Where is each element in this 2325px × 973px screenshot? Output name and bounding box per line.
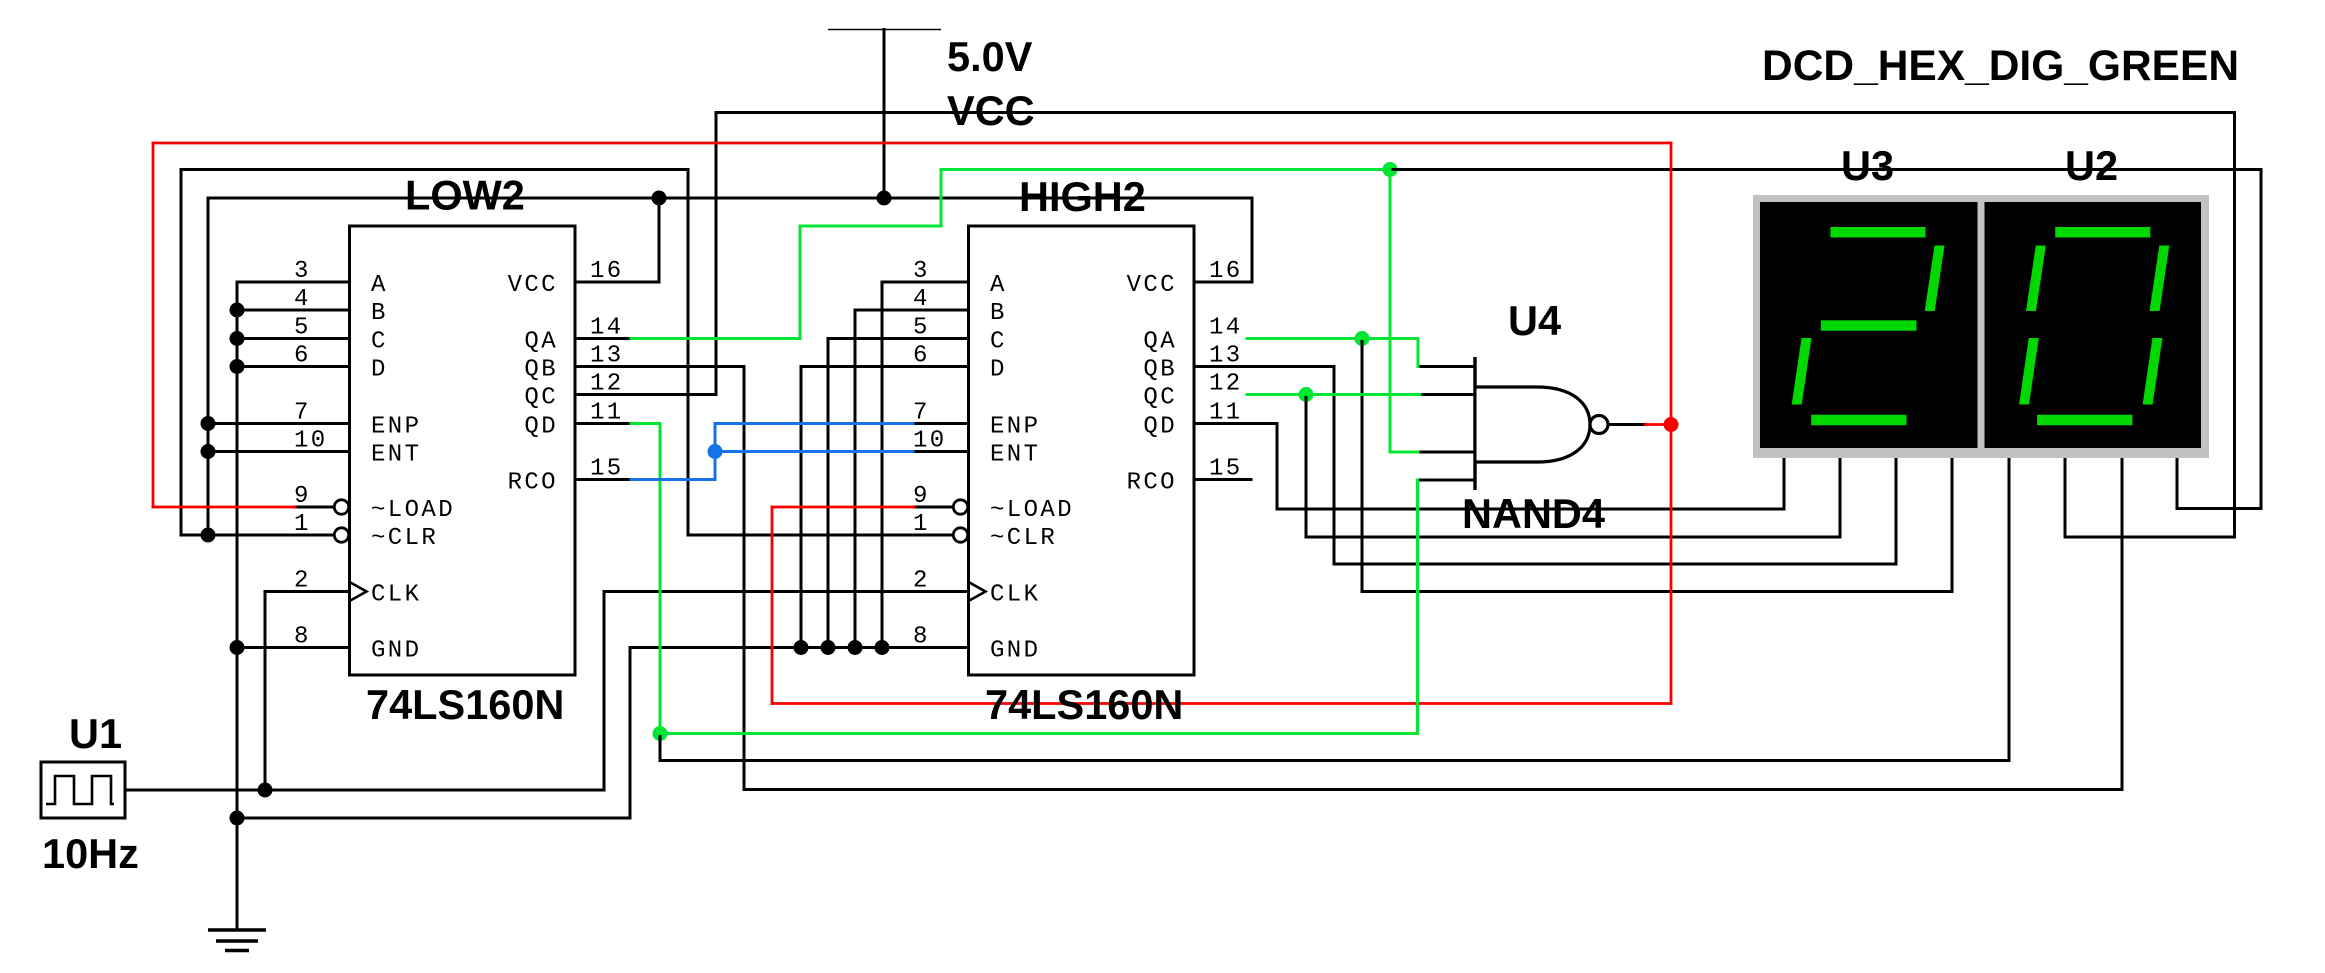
wire NAND output stub: [1610, 423, 1645, 426]
wire QB-low2 riser: [743, 367, 746, 790]
svg-text:QA: QA: [524, 329, 558, 356]
wire green QA into NAND input 3: [1390, 451, 1418, 454]
wire blue LOW2 RCO lead: [631, 478, 715, 481]
wire green QA jog: [800, 225, 941, 228]
wire green HIGH2 QC into NAND input 2: [1247, 393, 1420, 396]
wire HIGH2 GND rail pin 8: [630, 646, 969, 649]
svg-text:~CLR: ~CLR: [371, 525, 438, 552]
svg-text:GND: GND: [371, 638, 421, 665]
svg-text:U3: U3: [1841, 142, 1894, 189]
svg-text:A: A: [990, 272, 1007, 299]
U3 segment B: [1925, 246, 1945, 312]
junction VCC symbol: [877, 191, 892, 206]
wire green LOW2 QD lead: [631, 422, 660, 425]
junction VCC/pin16-LOW2: [652, 191, 667, 206]
wire HIGH2 pin 3 A: [882, 281, 969, 284]
svg-text:2: 2: [294, 568, 311, 595]
svg-text:RCO: RCO: [1127, 470, 1177, 497]
junction gnd/GND-LOW2: [230, 640, 245, 655]
wire HIGH2 pin 4 B: [855, 309, 969, 312]
svg-text:LOW2: LOW2: [405, 172, 525, 219]
svg-text:~LOAD: ~LOAD: [371, 497, 455, 524]
wire HIGH2 pin 2 CLK: [604, 590, 969, 593]
wire LOW2 pin 6 D: [237, 365, 350, 368]
wire green QD up to NAND input 4: [1416, 480, 1419, 734]
wire U3 display pin d: [1951, 458, 1954, 592]
wire QD-high2 riser: [1276, 424, 1279, 510]
junction HIGH2 D/GND: [794, 640, 809, 655]
wire green QA top segment: [941, 168, 1390, 171]
wire HIGH2 pin 15 RCO stub: [1194, 478, 1251, 481]
wire VCC symbol riser: [883, 30, 886, 199]
wire VCC branch riser: [207, 198, 210, 535]
wire LOW2 ~CLR pin lead: [181, 534, 333, 537]
wire U3 display pin b: [1839, 458, 1842, 537]
svg-text:U1: U1: [69, 710, 122, 757]
svg-text:B: B: [371, 300, 388, 327]
junction HIGH2 B/GND: [848, 640, 863, 655]
svg-text:~CLR: ~CLR: [990, 525, 1057, 552]
wire red right riser: [1670, 143, 1673, 704]
svg-text:QC: QC: [1143, 385, 1177, 412]
svg-text:D: D: [371, 357, 388, 384]
svg-text:DCD_HEX_DIG_GREEN: DCD_HEX_DIG_GREEN: [1762, 43, 2239, 90]
wire QC-low2 riser: [715, 113, 718, 395]
junction green QD-low2: [653, 726, 668, 741]
wire ground lower rail: [237, 817, 630, 820]
wire U1 output rail: [125, 789, 604, 792]
svg-text:VCC: VCC: [1127, 272, 1177, 299]
wire HIGH2 pin 5 C: [828, 337, 969, 340]
wire net QC-low2 top rail: [716, 111, 2235, 114]
ground symbol: [208, 930, 266, 951]
U3 segment A: [1830, 227, 1925, 238]
wire CLK riser HIGH2: [603, 592, 606, 791]
wire U2 display pin c: [2121, 458, 2124, 790]
wire QD-high2 to U3 pin a: [1277, 508, 1784, 511]
wire red NAND-out top rail: [153, 142, 1671, 145]
svg-text:5: 5: [294, 315, 311, 342]
svg-text:6: 6: [294, 343, 311, 370]
seven segment display U3 bezel: [1753, 195, 1981, 458]
svg-text:16: 16: [590, 258, 624, 285]
wire HIGH2 pin 11 QD lead: [1194, 422, 1277, 425]
junction VCC/ENP: [201, 416, 216, 431]
wire net ~CLR upper segment: [181, 168, 688, 171]
wire LOW2 pin 5 C: [237, 337, 350, 340]
wire HIGH2 pin 6 D: [801, 365, 969, 368]
svg-text:13: 13: [590, 343, 624, 370]
wire LOW2 pin 4 B: [237, 309, 350, 312]
U3 segment G: [1821, 320, 1917, 330]
U6 HIGH2 CLK edge triangle: [969, 582, 986, 601]
svg-text:13: 13: [1209, 343, 1243, 370]
svg-text:6: 6: [913, 343, 930, 370]
svg-text:12: 12: [590, 371, 624, 398]
junction gnd/D: [230, 359, 245, 374]
wire QA-low2 right riser: [2260, 170, 2263, 509]
wire U3 display pin c: [1895, 458, 1898, 564]
junction clock branch: [258, 783, 273, 798]
svg-text:4: 4: [294, 286, 311, 313]
wire blue to HIGH2 ENP: [715, 422, 913, 425]
wire blue riser: [714, 424, 717, 480]
wire CLK riser LOW2: [264, 592, 267, 791]
svg-text:5.0V: 5.0V: [947, 33, 1033, 80]
svg-text:RCO: RCO: [508, 470, 558, 497]
wire LOW2 pin 3 A: [237, 281, 350, 284]
U2 segment E: [2019, 338, 2039, 405]
wire ~CLR mid riser: [687, 170, 690, 536]
U2 segment B: [2150, 246, 2170, 312]
wire HIGH2 D drop: [800, 367, 803, 648]
svg-text:ENP: ENP: [371, 414, 421, 441]
svg-text:QA: QA: [1143, 329, 1177, 356]
svg-text:ENT: ENT: [371, 442, 421, 469]
wire HIGH2 VCC16 riser: [1251, 198, 1254, 282]
svg-text:2: 2: [913, 568, 930, 595]
svg-text:5: 5: [913, 315, 930, 342]
wire QD-low2 drop from junction: [659, 734, 662, 761]
svg-text:7: 7: [294, 400, 311, 427]
svg-text:QD: QD: [524, 414, 558, 441]
svg-text:NAND4: NAND4: [1462, 490, 1605, 537]
wire QC-low2 right riser: [2233, 113, 2236, 538]
svg-text:12: 12: [1209, 371, 1243, 398]
U5 LOW2 ~CLR bubble: [334, 528, 348, 542]
wire QA-low2 to U2 pin d: [2177, 507, 2261, 510]
wire NAND input 1 stub: [1418, 365, 1475, 368]
svg-text:HIGH2: HIGH2: [1019, 173, 1146, 220]
U2 segment F: [2026, 246, 2046, 312]
svg-text:QB: QB: [524, 357, 558, 384]
junction red NAND output: [1664, 417, 1679, 432]
wire U2 display pin d: [2176, 458, 2179, 509]
svg-text:11: 11: [1209, 400, 1243, 427]
svg-text:QB: QB: [1143, 357, 1177, 384]
wire U2 display pin b: [2064, 458, 2067, 537]
wire HIGH2 B drop: [854, 310, 857, 648]
wire red NAND output: [1645, 423, 1671, 426]
wire green QA riser 2: [940, 170, 943, 227]
wire NAND input 4 stub: [1418, 479, 1476, 482]
wire QA-high2 riser: [1361, 339, 1364, 592]
svg-text:D: D: [990, 357, 1007, 384]
seven segment display U2 bezel: [1981, 195, 2209, 458]
wire QC-low2 to U2 pin b: [2065, 536, 2235, 539]
svg-text:CLK: CLK: [990, 582, 1040, 609]
wire ground main riser: [236, 282, 239, 930]
U3 segment D: [1811, 415, 1906, 425]
wire ~CLR left riser: [180, 170, 183, 536]
svg-text:U4: U4: [1508, 297, 1561, 344]
U6 HIGH2 ~CLR bubble: [953, 528, 967, 542]
svg-text:VCC: VCC: [947, 87, 1035, 134]
svg-text:74LS160N: 74LS160N: [366, 681, 564, 728]
wire LOW2 pin 13 QB lead: [575, 365, 744, 368]
svg-text:3: 3: [913, 258, 930, 285]
wire HIGH2 pin 9 ~LOAD stub: [914, 506, 952, 509]
svg-text:QC: QC: [524, 385, 558, 412]
wire HIGH2 pin 7 ENP stub: [913, 422, 969, 425]
U3 segment E: [1792, 338, 1812, 405]
svg-text:GND: GND: [990, 638, 1040, 665]
wire LOW2 pin 16 VCC lead: [575, 281, 659, 284]
wire QB-low2 bottom rail: [744, 788, 2122, 791]
wire red to LOW2 ~LOAD: [153, 506, 295, 509]
svg-text:QD: QD: [1143, 414, 1177, 441]
wire LOW2 pin 9 ~LOAD stub: [295, 506, 333, 509]
svg-text:1: 1: [913, 511, 930, 538]
junction green QA-high2: [1355, 331, 1370, 346]
junction gnd lower rail: [230, 811, 245, 826]
wire HIGH2 pin 1 ~CLR lead: [688, 534, 952, 537]
svg-text:C: C: [371, 329, 388, 356]
wire green LOW2 QA lead: [631, 337, 800, 340]
wire QC-high2 riser: [1305, 395, 1308, 538]
wire LOW2 VCC16 riser: [658, 198, 661, 282]
svg-text:14: 14: [1209, 315, 1243, 342]
wire red to HIGH2 ~LOAD: [772, 506, 914, 509]
junction HIGH2 A/GND: [875, 640, 890, 655]
wire green QD riser: [659, 424, 662, 734]
svg-text:15: 15: [590, 456, 624, 483]
wire red left riser: [152, 143, 155, 507]
wire green HIGH2 QA lead: [1247, 337, 1418, 340]
svg-text:9: 9: [294, 483, 311, 510]
svg-text:16: 16: [1209, 258, 1243, 285]
U5 LOW2 ~LOAD bubble: [334, 500, 348, 514]
junction gnd/C: [230, 331, 245, 346]
wire NAND input 3 stub: [1418, 451, 1475, 454]
svg-text:8: 8: [913, 624, 930, 651]
U6 HIGH2 ~LOAD bubble: [953, 500, 967, 514]
wire green QD bottom rail: [660, 732, 1418, 735]
74LS160N counter U6 HIGH2 body: [969, 226, 1195, 675]
wire QB-high2 to U3 pin c: [1334, 563, 1896, 566]
wire blue to HIGH2 ENT: [715, 450, 913, 453]
svg-text:9: 9: [913, 483, 930, 510]
svg-text:B: B: [990, 300, 1007, 327]
wire LOW2 pin 11 QD stub: [575, 422, 631, 425]
svg-text:14: 14: [590, 315, 624, 342]
svg-text:~LOAD: ~LOAD: [990, 497, 1074, 524]
wire LOW2 pin 10 ENT: [208, 450, 350, 453]
wire LOW2 pin 15 RCO stub: [575, 478, 631, 481]
junction blue RCO net: [708, 444, 723, 459]
svg-text:11: 11: [590, 400, 624, 427]
svg-text:U2: U2: [2065, 142, 2118, 189]
U2 segment C: [2143, 338, 2163, 405]
U2 segment D: [2037, 415, 2132, 425]
svg-text:10: 10: [294, 428, 328, 455]
U5 LOW2 CLK edge triangle: [350, 582, 367, 601]
junction VCC/ENT: [201, 444, 216, 459]
wire green QA riser 1: [799, 226, 802, 339]
svg-text:7: 7: [913, 400, 930, 427]
NAND gate U4 body: [1477, 387, 1591, 462]
wire QD-low2 bottom rail: [660, 759, 2009, 762]
junction HIGH2 C/GND: [821, 640, 836, 655]
seven segment display U2 face: [1985, 202, 2202, 448]
svg-text:15: 15: [1209, 456, 1243, 483]
svg-text:8: 8: [294, 624, 311, 651]
wire net QA-low2 right segment: [1390, 168, 2261, 171]
svg-text:3: 3: [294, 258, 311, 285]
svg-text:ENT: ENT: [990, 442, 1040, 469]
wire HIGH2 pin 10 ENT stub: [913, 450, 969, 453]
svg-text:C: C: [990, 329, 1007, 356]
wire red bottom rail: [772, 702, 1671, 705]
junction gnd/B: [230, 303, 245, 318]
clock source U1 box: [41, 762, 125, 818]
svg-text:10: 10: [913, 428, 947, 455]
NAND gate U4 input bar: [1473, 357, 1476, 490]
junction green QC-high2: [1299, 387, 1314, 402]
wire red riser to HIGH2 ~LOAD: [771, 507, 774, 704]
svg-text:VCC: VCC: [508, 272, 558, 299]
wire LOW2 pin 7 ENP: [208, 422, 350, 425]
wire LOW2 pin 12 QC lead: [575, 393, 716, 396]
wire HIGH2 pin 13 QB lead: [1194, 365, 1334, 368]
wire green QA drop to NAND: [1389, 170, 1392, 453]
VCC power symbol bar: [828, 29, 941, 31]
wire ground riser to HIGH2 GND: [629, 648, 632, 819]
svg-text:A: A: [371, 272, 388, 299]
U2 segment A: [2055, 227, 2150, 238]
junction VCC/~CLR: [201, 528, 216, 543]
wire LOW2 pin 2 CLK: [265, 590, 350, 593]
svg-text:ENP: ENP: [990, 414, 1040, 441]
wire VCC rail: [208, 197, 1252, 200]
svg-text:CLK: CLK: [371, 582, 421, 609]
clock source U1 waveform: [46, 776, 114, 804]
seven segment display U3 face: [1760, 202, 1978, 448]
wire LOW2 pin 8 GND: [237, 646, 350, 649]
wire HIGH2 C drop: [827, 339, 830, 648]
svg-text:1: 1: [294, 511, 311, 538]
wire LOW2 pin 14 QA stub: [575, 337, 631, 340]
svg-text:74LS160N: 74LS160N: [985, 681, 1183, 728]
wire HIGH2 A drop: [881, 282, 884, 648]
svg-text:10Hz: 10Hz: [42, 830, 139, 877]
wire NAND input 2 stub: [1420, 393, 1475, 396]
junction green QA-low2: [1383, 162, 1398, 177]
wire U2 display pin a: [2008, 458, 2011, 761]
wire HIGH2 pin 16 VCC lead: [1194, 281, 1252, 284]
wire QB-high2 riser: [1333, 367, 1336, 565]
wire U3 display pin a: [1783, 458, 1786, 509]
svg-text:4: 4: [913, 286, 930, 313]
NAND gate U4 output bubble: [1590, 416, 1608, 434]
wire green HIGH2 QA into NAND input 1: [1417, 339, 1420, 367]
wire QA-high2 to U3 pin d: [1362, 590, 1952, 593]
wire QC-high2 to U3 pin b: [1306, 536, 1840, 539]
74LS160N counter U5 LOW2 body: [350, 226, 576, 675]
